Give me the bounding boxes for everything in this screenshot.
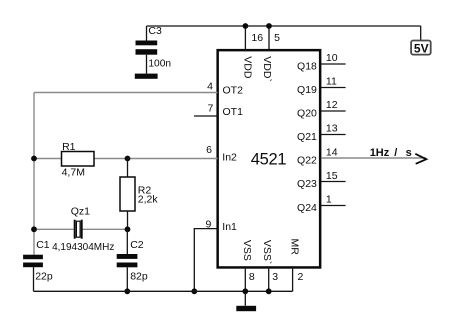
svg-text:C1: C1 [36,239,50,251]
value label 1Hz / s [370,147,412,159]
wire pin5 stem [268,26,270,49]
svg-text:4,7M: 4,7M [62,166,85,178]
svg-text:10: 10 [326,52,338,64]
capacitor C3 [136,25,172,70]
wire In2 row right of R1 [94,158,218,160]
wire ground stem [244,291,246,306]
pin label VDD' [261,56,273,82]
svg-text:MR: MR [288,239,300,256]
svg-text:5V: 5V [414,41,429,55]
svg-text:8: 8 [249,271,255,283]
svg-text:6: 6 [206,144,212,156]
wire Q18 stub [321,63,346,65]
pin number 1 [326,194,332,206]
resistor R1 [62,141,95,179]
wire Q20 stub [321,110,346,112]
pin label In2 [222,152,237,164]
svg-text:82p: 82p [130,270,148,282]
wire C1 bottom stem [33,267,35,291]
node C2 bottom junction [124,288,130,294]
pin number 3 [272,271,278,283]
svg-text:7: 7 [208,102,214,114]
wire R2 bottom stem [127,211,129,229]
node R2 top junction [125,156,131,162]
pin label OT2 [223,85,244,97]
ground under pin8 [236,306,256,311]
wire C2 bottom stem [126,267,128,291]
svg-text:11: 11 [326,76,337,88]
svg-text:VDD: VDD [242,56,254,79]
pin number 10 [326,52,338,64]
wire left rail [33,93,35,255]
svg-text:3: 3 [272,271,278,283]
pin number 7 [208,102,214,114]
wire bottom ground rail [34,290,293,292]
pin label OT1 [223,106,244,118]
node pin5 junction [266,23,272,29]
svg-text:9: 9 [206,218,212,230]
svg-text:/: / [394,147,397,159]
pin number 14 [326,147,338,159]
svg-text:Q23: Q23 [297,178,317,190]
pin label Q21 [297,131,317,143]
svg-text:14: 14 [326,147,338,159]
node crystal right junction [125,226,131,232]
node pin3 junction [266,288,272,294]
wire top supply rail [147,25,421,27]
svg-text:VDD`: VDD` [261,56,273,82]
svg-text:2,2k: 2,2k [138,194,159,206]
capacitor C1 [23,239,53,282]
pin label Q18 [297,60,317,72]
pin number 11 [326,76,337,88]
wire pin8 stem [244,269,246,292]
svg-text:C2: C2 [130,239,144,251]
svg-text:1: 1 [326,194,332,206]
pin label Q24 [297,202,317,214]
pin number 2 [298,271,304,283]
pin number 5 [274,32,280,44]
pin label MR [288,239,300,256]
wire Q23 stub [321,181,346,183]
crystal Qz1 [52,206,114,253]
node crystal left junction [31,226,37,232]
wire Q24 stub [321,205,346,207]
pin number 12 [326,99,338,111]
pin number 9 [206,218,212,230]
svg-text:12: 12 [326,99,338,111]
pin number 16 [251,32,263,44]
wire Q19 stub [321,87,346,89]
pin label VSS [241,240,253,261]
pin number 6 [206,144,212,156]
svg-text:15: 15 [326,170,338,182]
pin number 4 [207,81,213,93]
wire C3 to ground [146,55,148,74]
wire C2 top stem [126,229,128,254]
wire pin16 stem [244,26,246,49]
pin label Q20 [297,107,317,119]
svg-text:Q18: Q18 [297,60,317,72]
wire Q21 stub [321,134,346,136]
wire crystal row right [83,228,128,230]
capacitor C2 [117,239,148,282]
node output arrow [415,154,426,164]
svg-text:22p: 22p [35,270,53,282]
svg-text:4,194304MHz: 4,194304MHz [52,242,114,253]
svg-text:OT2: OT2 [223,85,244,97]
node In1 bottom junction [191,288,197,294]
wire pin2 MR stem [292,269,294,292]
pin label VDD [242,56,254,79]
svg-text:100n: 100n [148,59,171,70]
wire OT1 stub [194,115,218,117]
power 5V [411,41,431,56]
pin label In1 [222,221,237,233]
svg-text:Q19: Q19 [297,84,317,96]
wire OT2 row [34,92,218,94]
svg-text:4: 4 [207,81,213,93]
wire 5V stem [420,26,422,41]
node left rail / In2 junction [31,156,37,162]
wire In2 row left of R1 [34,158,62,160]
pin label Q23 [297,178,317,190]
pin label Q19 [297,84,317,96]
svg-text:Q21: Q21 [297,131,317,143]
svg-text:In2: In2 [222,152,237,164]
svg-text:4521: 4521 [251,151,287,169]
pin number 15 [326,170,338,182]
pin number 13 [326,123,338,135]
value label 4521 [251,151,287,169]
svg-text:1Hz: 1Hz [370,147,390,159]
svg-text:16: 16 [251,32,263,44]
svg-text:Q22: Q22 [297,154,317,166]
svg-text:OT1: OT1 [223,106,244,118]
wire Q22 output row [321,157,426,159]
svg-text:Q20: Q20 [297,107,317,119]
resistor R2 [120,177,158,211]
wire pin3 stem [268,269,270,292]
pin number 8 [249,271,255,283]
ground under C3 [135,74,158,79]
wire R2 top stem [127,159,129,178]
svg-text:Q24: Q24 [297,202,317,214]
svg-text:VSS: VSS [241,240,253,261]
svg-text:VSS`: VSS` [261,240,273,265]
node pin16 junction [243,23,249,29]
svg-text:R1: R1 [62,141,76,153]
svg-text:2: 2 [298,271,304,283]
svg-text:s: s [406,147,412,159]
pin label Q22 [297,154,317,166]
wire C3 stem to rail [146,26,148,41]
svg-text:In1: In1 [222,221,237,233]
node pin8 junction [242,288,248,294]
svg-text:5: 5 [274,32,280,44]
pin label VSS' [261,240,273,265]
wire crystal row left [34,228,74,230]
wire In1 row [194,229,217,292]
svg-text:Qz1: Qz1 [71,206,90,218]
svg-text:13: 13 [326,123,338,135]
op-amp U1 IC 4521 body [218,50,321,267]
svg-text:C3: C3 [148,25,162,37]
